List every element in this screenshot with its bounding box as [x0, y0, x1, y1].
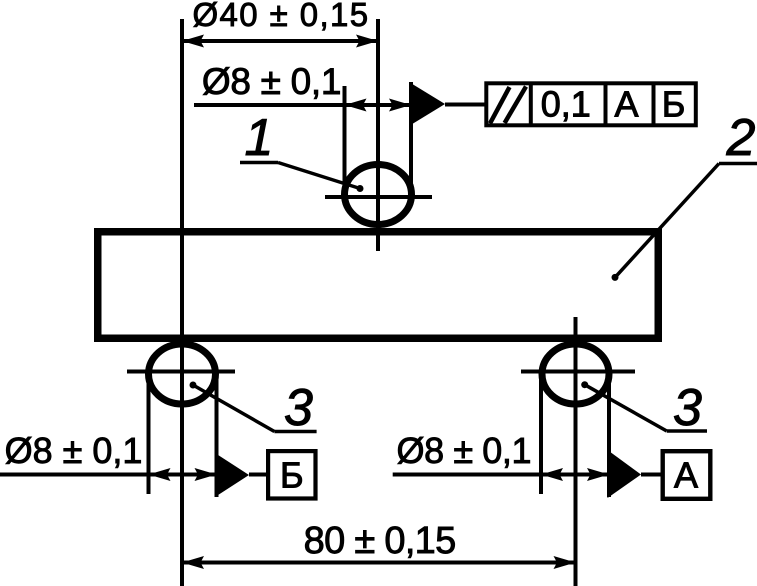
svg-text:3: 3: [673, 379, 702, 437]
datum box А: [663, 451, 711, 499]
parallelism symbol //: [490, 87, 510, 123]
roller 1 horizontal centerline: [325, 195, 432, 199]
svg-text:Ø8 ± 0,1: Ø8 ± 0,1: [202, 61, 341, 102]
roller 3 right horizontal centerline: [521, 370, 635, 374]
extension line left (bottom-left Ø8): [147, 374, 151, 494]
leader label 1: [240, 161, 278, 165]
beam 2 (rectangle): [98, 232, 659, 339]
extension line right (bottom-left Ø8): [215, 374, 219, 497]
svg-text:80 ± 0,15: 80 ± 0,15: [304, 520, 456, 562]
datum flag Б triangle: [215, 453, 249, 497]
svg-text:Ø8 ± 0,1: Ø8 ± 0,1: [5, 430, 143, 471]
leader triangle to tolerance frame: [409, 82, 445, 126]
extension line right (bottom-right Ø8): [607, 374, 611, 497]
svg-text:Ø40 ± 0,15: Ø40 ± 0,15: [192, 0, 369, 33]
svg-text:3: 3: [284, 379, 313, 437]
dimension line Ø8 ± 0,1 (top): [194, 103, 409, 107]
svg-text:А: А: [614, 83, 638, 124]
extension line left (top Ø8): [343, 86, 347, 196]
svg-text:2: 2: [726, 109, 756, 167]
svg-text:0,1: 0,1: [541, 83, 591, 124]
svg-text:1: 1: [245, 109, 274, 167]
extension line left (bottom-right Ø8): [539, 374, 543, 494]
roller 3 left horizontal centerline: [127, 370, 235, 374]
leader label 3 (right): [667, 429, 707, 433]
leader label 3 (left): [274, 430, 316, 434]
roller 3 left (bottom-left circle): [149, 344, 216, 404]
dimension line Ø8 ± 0,1 (bottom left): [0, 473, 217, 477]
dimension line Ø40 ± 0,15: [182, 39, 378, 43]
svg-text:Б: Б: [280, 454, 304, 495]
centerline L3 (right roller axis): [574, 317, 578, 586]
leader label 2: [719, 162, 757, 166]
svg-text:А: А: [674, 454, 698, 495]
svg-text:Б: Б: [662, 83, 686, 124]
svg-text:Ø8 ± 0,1: Ø8 ± 0,1: [397, 430, 532, 471]
datum box Б: [268, 451, 315, 498]
roller 3 right (bottom-right circle): [542, 344, 609, 404]
roller 1 (top circle): [345, 165, 412, 225]
dimension line 80 ± 0,15: [182, 561, 576, 565]
tolerance frame // 0,1 А Б: [486, 83, 696, 125]
centerline L1 (left roller axis, full height): [180, 19, 184, 586]
dimension line Ø8 ± 0,1 (bottom right): [393, 473, 609, 477]
datum flag А triangle: [608, 450, 642, 498]
centerline L2 (top roller axis): [376, 19, 380, 251]
extension line right (top Ø8): [409, 82, 413, 196]
